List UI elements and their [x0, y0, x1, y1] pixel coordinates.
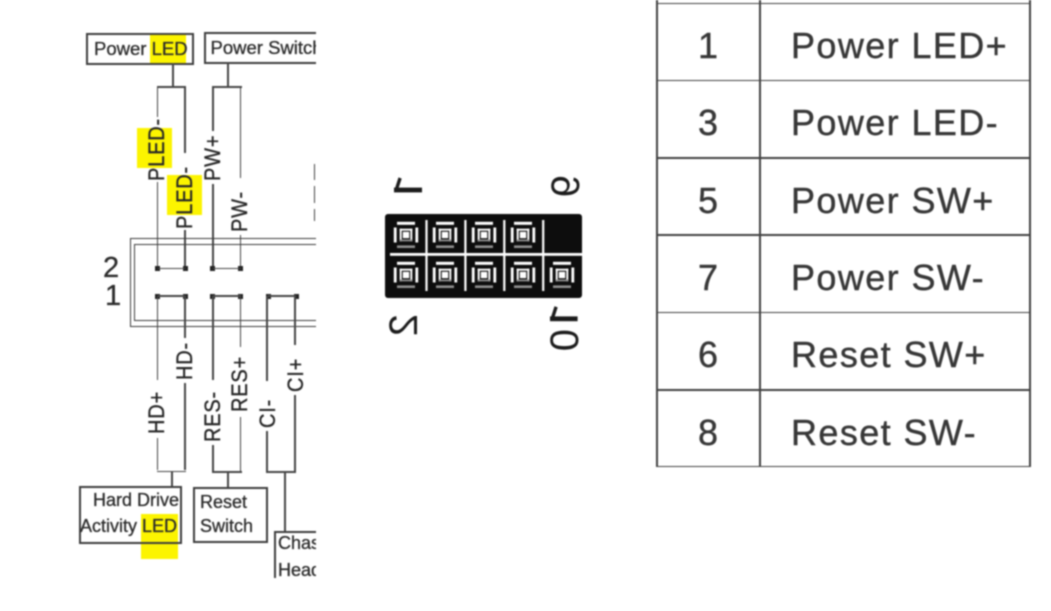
Hard Drive Activity LED text: [93, 491, 179, 509]
wire col6 below pin (CI+): [294, 296, 296, 345]
wire col5 below pin (CI-): [266, 296, 268, 381]
wire col4 lower to pin: [240, 235, 242, 269]
label PW- col4: [229, 191, 251, 232]
wire col3 above RES bar: [212, 445, 214, 471]
yellow highlight PLED-2: [167, 175, 202, 215]
label PLED- col1: [146, 118, 168, 181]
Chassis box (clipped): [274, 531, 358, 595]
label PLED- col2: [174, 166, 196, 229]
wire col1 upper: [157, 86, 159, 117]
label PW+ col3: [202, 135, 224, 181]
pin number 9 (mirror-rotated): [546, 175, 586, 197]
HD bar: [157, 471, 187, 473]
yellow highlight PLED-1: [137, 128, 172, 168]
white column separators: [425, 220, 427, 291]
label HD-: [174, 342, 196, 380]
wire col2 below pin (HD-): [184, 296, 186, 338]
wire col4 above RES bar: [240, 417, 242, 471]
row number 1: [105, 282, 121, 311]
table row 3: [698, 183, 719, 219]
Hard Drive Activity LED box background: [79, 486, 182, 544]
wire col4 upper: [240, 86, 242, 178]
wire col2 above HD bar: [184, 383, 186, 470]
CI stem to chassis box: [284, 472, 286, 531]
label RES+: [229, 356, 251, 412]
row1 pair connectors: [158, 295, 186, 297]
row1 pin dots: [155, 294, 160, 299]
wire col4 below pin (RES+): [240, 296, 242, 347]
table horizontal lines: [656, 3, 1032, 5]
wire col6 above CI bar: [294, 395, 296, 471]
yellow highlight LED (spills below box): [141, 514, 178, 559]
row number 2: [103, 254, 119, 283]
Power LED text: [94, 40, 188, 59]
wire stem from Power LED box: [172, 63, 174, 87]
pins top row: [394, 222, 418, 248]
wire col1 lower to pin: [157, 182, 159, 269]
table row 4: [698, 260, 719, 296]
table vertical divider: [759, 0, 761, 467]
wire col3 lower to pin: [212, 184, 214, 269]
label HD+: [146, 391, 168, 434]
Power Switch label box: [204, 32, 338, 64]
Reset Switch text: [200, 493, 247, 511]
CI bar: [266, 471, 296, 473]
label CI-: [257, 398, 279, 427]
wire bar PLED pair: [157, 86, 186, 88]
yellow highlight LED: [150, 35, 186, 64]
table row 2: [698, 105, 719, 141]
table vertical left border: [656, 0, 658, 467]
pin number 1 (drawn, mirror-rotated style): [388, 172, 428, 198]
row2 pin dots: [155, 266, 160, 271]
label RES-: [202, 391, 224, 442]
pin number 2 (mirror-rotated): [384, 314, 424, 336]
header outline outer rectangle: [130, 238, 332, 327]
white row separator: [390, 253, 582, 256]
table row 1: [698, 28, 719, 64]
RES bar: [212, 471, 242, 473]
HD stem to box: [171, 471, 173, 487]
middle black pin header graphic: [385, 214, 582, 298]
Chassis text: [278, 534, 342, 552]
table row 6: [698, 415, 719, 451]
black header body: [385, 214, 582, 298]
pin number 10: digit 1 (drawn): [546, 302, 582, 324]
left schematic clip container: [0, 0, 316, 578]
label CI+: [285, 358, 307, 392]
wire col5 above CI bar: [266, 431, 268, 471]
wire col2 lower to pin: [184, 230, 186, 269]
wire col3 upper: [212, 86, 214, 131]
pin number 10: digit 0 (mirror-rotated): [545, 329, 585, 351]
pins bottom row: [394, 262, 418, 288]
header outline inner rectangle: [134, 244, 336, 321]
table row 5: [698, 337, 719, 373]
wire col1 below pin (HD+): [157, 296, 159, 380]
wire bar PW pair: [212, 86, 242, 88]
Power LED label box: [86, 33, 194, 65]
row2 pair connectors: [158, 268, 186, 270]
wire stem from Power Switch box: [227, 62, 229, 87]
table vertical right border: [1029, 0, 1031, 467]
clipped dashed element right edge: [314, 164, 316, 180]
Reset Switch box: [193, 487, 269, 543]
wire col2 upper: [184, 86, 186, 153]
Hard Drive Activity LED box border: [79, 486, 182, 544]
RES stem to box: [227, 472, 229, 488]
wire col1 above HD bar: [157, 438, 159, 470]
wire col3 below pin (RES-): [212, 296, 214, 380]
Power Switch text: [211, 39, 323, 58]
